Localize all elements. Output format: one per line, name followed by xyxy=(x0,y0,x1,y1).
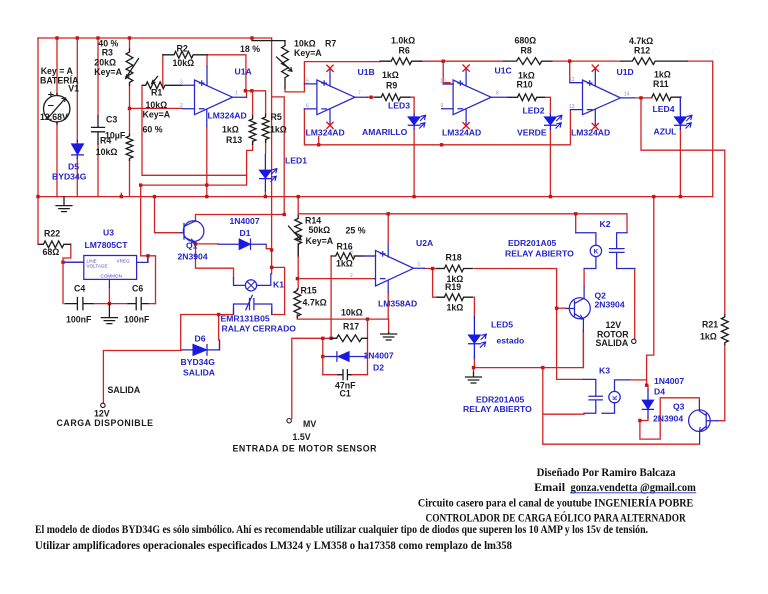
op-amp U1D xyxy=(583,80,621,115)
svg-text:R2: R2 xyxy=(177,44,188,54)
svg-text:18 %: 18 % xyxy=(240,44,260,54)
wire R10 to LED2 xyxy=(544,97,550,196)
svg-text:12: 12 xyxy=(569,77,575,83)
wire Q1 collector line xyxy=(196,215,285,222)
svg-text:SALIDA: SALIDA xyxy=(183,368,215,378)
wire R13 R5 bottoms xyxy=(253,140,266,154)
wire 5V node rail xyxy=(141,175,247,256)
svg-text:1kΩ: 1kΩ xyxy=(222,125,239,135)
wire D5 column xyxy=(76,38,78,197)
svg-text:1.5V: 1.5V xyxy=(293,432,311,442)
svg-text:LM324AD: LM324AD xyxy=(442,128,481,138)
svg-text:Key=A: Key=A xyxy=(294,48,322,58)
wire D2 C1 right rail xyxy=(365,319,368,375)
svg-text:U1B: U1B xyxy=(358,67,375,77)
wire EMR contact bottom rail xyxy=(181,309,285,341)
svg-text:Email: Email xyxy=(534,480,566,494)
svg-text:K2: K2 xyxy=(600,219,611,229)
svg-text:U1A: U1A xyxy=(235,67,252,77)
terminal ROTOR 12V xyxy=(632,339,636,343)
wire R14 top xyxy=(298,197,388,216)
LED3 xyxy=(408,117,420,125)
svg-text:LED3: LED3 xyxy=(388,101,410,111)
wire R18 to Q2 base xyxy=(474,269,583,380)
wire Q2 emitter drop xyxy=(582,330,584,368)
svg-text:R10: R10 xyxy=(517,80,533,90)
wire bus drop to K1 area xyxy=(271,38,273,274)
svg-text:Q1: Q1 xyxy=(186,241,198,251)
wire U2A vminus to ground xyxy=(387,293,389,320)
relay coil K1 xyxy=(245,280,256,291)
capacitor C4 xyxy=(65,298,93,310)
ground LED5 xyxy=(466,373,482,384)
wire U3 VREG to C6 right xyxy=(148,256,156,304)
relay coil K3 xyxy=(609,391,620,402)
wire U1A pin11 to ground xyxy=(206,127,208,197)
svg-text:10kΩ: 10kΩ xyxy=(146,100,168,110)
svg-text:EDR201A05: EDR201A05 xyxy=(476,395,524,405)
svg-text:Circuito casero para el canal: Circuito casero para el canal de youtube… xyxy=(418,495,694,509)
relay contact K3 xyxy=(583,379,602,413)
svg-text:D5: D5 xyxy=(68,162,79,172)
wire R8 right node column xyxy=(542,61,582,83)
svg-text:Utilizar amplificadores operac: Utilizar amplificadores operacionales es… xyxy=(35,538,512,552)
wire K2 feed line xyxy=(388,214,627,233)
svg-text:10kΩ: 10kΩ xyxy=(96,147,118,157)
svg-text:LM324AD: LM324AD xyxy=(571,128,610,138)
wire U1A feedback R2 xyxy=(163,55,246,91)
svg-text:R19: R19 xyxy=(445,282,461,292)
relay contact K2 xyxy=(610,233,635,269)
svg-text:V1: V1 xyxy=(68,84,79,94)
svg-text:13: 13 xyxy=(569,104,575,110)
svg-text:R6: R6 xyxy=(399,46,410,56)
svg-text:LED5: LED5 xyxy=(491,320,513,330)
transistor Q1 xyxy=(183,221,204,242)
wire U1B output node xyxy=(367,96,375,98)
capacitor C6 xyxy=(128,298,148,310)
svg-text:C4: C4 xyxy=(74,284,85,294)
svg-text:C1: C1 xyxy=(340,389,351,399)
potentiometer R7 xyxy=(282,41,289,88)
svg-text:U2A: U2A xyxy=(416,238,433,248)
LED1 xyxy=(260,170,272,178)
svg-text:AZUL: AZUL xyxy=(654,127,677,137)
capacitor C1 xyxy=(338,370,351,380)
wire R1 bottom feedback column xyxy=(142,85,253,175)
transistor Q3 xyxy=(689,410,711,432)
diode D5 xyxy=(72,144,84,154)
wire U2A output node xyxy=(424,269,444,298)
wire Q3 base from R21 xyxy=(718,420,725,422)
wire U1D output node xyxy=(634,98,725,150)
svg-text:MV: MV xyxy=(303,419,316,429)
wire R12 right drop xyxy=(688,61,713,197)
wire +12V top bus xyxy=(38,37,272,39)
wire K2 coil bottom to Q2 xyxy=(583,269,585,287)
svg-text:D6: D6 xyxy=(195,334,206,344)
no-connect X U1D pin11 xyxy=(592,123,598,129)
wire R16 to U2A plus xyxy=(354,255,376,257)
wire Q1 base from ground bus xyxy=(155,197,181,233)
svg-text:3: 3 xyxy=(350,250,353,256)
svg-text:U1D: U1D xyxy=(617,67,634,77)
wire Q3 emitter rail xyxy=(543,443,700,445)
svg-text:1kΩ: 1kΩ xyxy=(654,70,671,80)
svg-text:BYD34G: BYD34G xyxy=(52,172,87,182)
svg-text:14: 14 xyxy=(624,92,630,98)
resistor R18 xyxy=(437,265,473,272)
wire battery column xyxy=(56,38,58,197)
svg-text:2N3904: 2N3904 xyxy=(178,252,208,262)
svg-text:R17: R17 xyxy=(343,322,359,332)
svg-text:LED4: LED4 xyxy=(653,104,675,114)
svg-text:R21: R21 xyxy=(702,320,718,330)
svg-text:estado: estado xyxy=(497,336,525,346)
svg-text:1kΩ: 1kΩ xyxy=(700,332,717,342)
LED2 xyxy=(545,117,557,125)
svg-text:R13: R13 xyxy=(226,135,242,145)
resistor R22 xyxy=(39,241,70,248)
battery V1 xyxy=(44,96,70,122)
svg-text:RELAY ABIERTO: RELAY ABIERTO xyxy=(505,249,574,259)
wire U2A vplus pin xyxy=(387,214,389,243)
diode D6 xyxy=(193,345,206,356)
svg-text:6: 6 xyxy=(306,104,309,110)
wire K3 bottom loop xyxy=(543,368,584,445)
resistor R10 xyxy=(508,94,544,101)
svg-text:VOLTAGE: VOLTAGE xyxy=(87,264,108,269)
wire R15 bottom to ground line xyxy=(297,315,388,333)
svg-text:CARGA DISPONIBLE: CARGA DISPONIBLE xyxy=(57,418,154,428)
svg-text:ENTRADA DE MOTOR SENSOR: ENTRADA DE MOTOR SENSOR xyxy=(233,444,378,454)
svg-text:R5: R5 xyxy=(271,112,282,122)
svg-text:2: 2 xyxy=(350,273,353,279)
svg-text:VERDE: VERDE xyxy=(517,128,547,138)
svg-text:10kΩ: 10kΩ xyxy=(173,58,195,68)
resistor R12 xyxy=(621,58,687,65)
svg-text:U1C: U1C xyxy=(495,66,512,76)
svg-text:K: K xyxy=(594,248,599,255)
wire K3 coil top link xyxy=(629,379,647,381)
no-connect X U1D pin4 xyxy=(592,65,598,71)
resistor R17 xyxy=(331,335,367,342)
no-connect X U1B pin4 xyxy=(327,65,333,71)
resistor R15 xyxy=(294,289,301,318)
svg-text:60 %: 60 % xyxy=(143,125,163,135)
op-amp U1B xyxy=(317,80,355,115)
svg-text:R4: R4 xyxy=(100,135,111,145)
svg-text:12.68V: 12.68V xyxy=(40,112,68,122)
svg-text:LED1: LED1 xyxy=(285,156,307,166)
svg-text:R8: R8 xyxy=(521,46,532,56)
op-amp U2A xyxy=(376,251,414,287)
wire Q2 base stub xyxy=(557,307,566,309)
svg-text:R11: R11 xyxy=(653,79,669,89)
relay contact K1 EMR131B05 xyxy=(234,295,272,314)
resistor R9 xyxy=(375,94,410,101)
svg-text:AMARILLO: AMARILLO xyxy=(362,127,408,137)
wire LED4 cathode xyxy=(679,97,681,197)
potentiometer R14 xyxy=(295,216,302,256)
svg-text:Diseñado Por Ramiro Balcaza: Diseñado Por Ramiro Balcaza xyxy=(537,465,676,479)
svg-text:D4: D4 xyxy=(654,387,665,397)
diode D1 xyxy=(239,239,250,249)
terminal SALIDA 12V xyxy=(101,403,105,407)
node dot Q2 base xyxy=(555,307,558,310)
svg-text:COMMON: COMMON xyxy=(101,274,122,279)
svg-text:VREG: VREG xyxy=(117,259,130,264)
diode D4 xyxy=(642,400,653,409)
svg-text:1kΩ: 1kΩ xyxy=(270,125,287,135)
wire R9 to LED3 xyxy=(409,97,414,196)
svg-text:1.0kΩ: 1.0kΩ xyxy=(391,36,415,46)
ground battery xyxy=(56,197,72,212)
wire D4 bottom to Q3 collector staircase xyxy=(640,398,700,439)
wire R22 to U3 input xyxy=(63,244,84,303)
svg-text:4.7kΩ: 4.7kΩ xyxy=(303,298,327,308)
svg-text:12V: 12V xyxy=(94,409,110,419)
svg-text:4.7kΩ: 4.7kΩ xyxy=(629,36,653,46)
wire C4 C6 common node xyxy=(93,288,156,304)
resistor R19 xyxy=(437,294,473,301)
node dot R6 right xyxy=(442,60,445,63)
wire R17 left rail MV xyxy=(292,338,337,418)
svg-text:9: 9 xyxy=(441,103,444,109)
svg-text:Key=A: Key=A xyxy=(143,110,171,120)
LED5 xyxy=(469,335,481,343)
terminal MV xyxy=(287,419,291,423)
svg-text:RELAY ABIERTO: RELAY ABIERTO xyxy=(463,404,532,414)
potentiometer R3 xyxy=(126,49,133,85)
svg-text:Q3: Q3 xyxy=(673,402,685,412)
svg-text:R14: R14 xyxy=(305,216,321,226)
wire LED5 ground line xyxy=(474,332,584,373)
node dots Q1 D1 K1 xyxy=(194,242,197,245)
op-amp U1A xyxy=(195,80,233,115)
wire bus drop to K3 coil feed xyxy=(647,197,654,386)
svg-text:10kΩ: 10kΩ xyxy=(294,39,316,49)
diode D2 leads xyxy=(326,352,365,361)
ground U2A xyxy=(381,333,397,341)
diode D1 leads xyxy=(218,239,266,249)
capacitor C3 xyxy=(92,116,105,144)
svg-text:K3: K3 xyxy=(599,366,610,376)
svg-text:K1: K1 xyxy=(273,280,284,290)
resistor R4 xyxy=(126,134,133,160)
svg-text:D1: D1 xyxy=(240,228,251,238)
svg-text:1: 1 xyxy=(235,91,238,97)
node dot U1B output xyxy=(369,96,372,99)
svg-text:1N4007: 1N4007 xyxy=(364,351,394,361)
svg-text:BYD34G: BYD34G xyxy=(181,357,216,367)
wire R3 R4 column xyxy=(129,38,131,197)
wire LED1 cathode to ground bus xyxy=(264,191,266,197)
diode D2 xyxy=(338,352,349,361)
wire R14 R15 node to U2A minus xyxy=(297,244,374,290)
wire K2 contact bottom to rotor terminal xyxy=(634,269,636,340)
resistor R8 xyxy=(504,58,552,65)
wire R7 top lead connect xyxy=(252,38,285,41)
svg-text:50kΩ: 50kΩ xyxy=(309,225,331,235)
node dots K2 feed xyxy=(387,212,390,215)
svg-text:1N4007: 1N4007 xyxy=(654,376,684,386)
svg-text:R1: R1 xyxy=(151,87,162,97)
svg-text:El modelo de diodos BYD34G es: El modelo de diodos BYD34G es sólo simbó… xyxy=(35,522,648,536)
svg-text:2: 2 xyxy=(180,103,183,109)
svg-text:1: 1 xyxy=(418,262,421,268)
svg-text:R15: R15 xyxy=(301,286,317,296)
svg-text:8: 8 xyxy=(496,91,499,97)
svg-text:R18: R18 xyxy=(446,253,462,263)
svg-text:SALIDA: SALIDA xyxy=(596,338,629,348)
svg-text:1N4007: 1N4007 xyxy=(230,216,260,226)
svg-text:680Ω: 680Ω xyxy=(515,36,537,46)
resistor R6 xyxy=(380,58,422,65)
potentiometer R1 xyxy=(143,82,182,89)
svg-text:C3: C3 xyxy=(106,115,117,125)
svg-text:2N3904: 2N3904 xyxy=(595,300,625,310)
svg-text:12V: 12V xyxy=(606,320,622,330)
svg-text:LM324AD: LM324AD xyxy=(306,128,345,138)
svg-text:Key=A: Key=A xyxy=(306,236,334,246)
svg-text:U3: U3 xyxy=(103,228,114,238)
wire C1 bottom rail xyxy=(323,374,368,376)
wire R6 right node column xyxy=(421,61,504,84)
svg-text:100nF: 100nF xyxy=(66,315,92,325)
svg-text:R7: R7 xyxy=(325,39,336,49)
wire R7 wiper to U1B xyxy=(285,62,380,92)
svg-text:gonza.vendetta @gmail.com: gonza.vendetta @gmail.com xyxy=(571,480,696,494)
wire D4 anode stub xyxy=(647,385,648,390)
resistor R21 xyxy=(721,315,728,345)
wire R8 to R12 xyxy=(570,60,621,62)
resistor R13 xyxy=(249,116,256,144)
wire left rail to R22 xyxy=(37,38,39,244)
wire D1 cathode jog xyxy=(266,245,271,249)
wire ground bus xyxy=(38,193,713,196)
wire R7 branch xyxy=(272,97,285,215)
LED4 anode from R11 xyxy=(679,97,681,113)
svg-text:LM7805CT: LM7805CT xyxy=(85,240,129,250)
svg-text:LED2: LED2 xyxy=(523,106,545,116)
svg-text:R12: R12 xyxy=(634,46,650,56)
ground U3 xyxy=(101,304,117,324)
svg-text:1kΩ: 1kΩ xyxy=(382,70,399,80)
svg-text:R9: R9 xyxy=(386,80,397,90)
node dots U2A xyxy=(431,267,434,270)
resistor R16 xyxy=(331,253,363,260)
wire R19 to LED5 xyxy=(473,297,475,367)
no-connect X U1B pin11 xyxy=(327,122,333,128)
svg-text:2N3904: 2N3904 xyxy=(653,414,683,424)
svg-text:LM358AD: LM358AD xyxy=(378,299,417,309)
node dots U1A output xyxy=(244,89,247,92)
node dots ground bus xyxy=(36,195,39,198)
resistor R5 xyxy=(262,114,269,142)
svg-text:C6: C6 xyxy=(132,284,143,294)
svg-text:R22: R22 xyxy=(44,229,60,239)
node dot R4 inverting xyxy=(128,107,131,110)
node dots D4 xyxy=(645,384,648,387)
node dot U1D output xyxy=(639,96,642,99)
node dots top bus xyxy=(55,36,58,39)
wire R21 column xyxy=(724,150,726,421)
svg-text:1kΩ: 1kΩ xyxy=(336,259,353,269)
wire U1A output node xyxy=(245,91,266,116)
svg-text:Key=A: Key=A xyxy=(94,67,122,77)
wire C3 column xyxy=(97,38,99,197)
transistor Q2 xyxy=(569,298,590,319)
svg-text:100nF: 100nF xyxy=(124,315,150,325)
wire R16 left riser xyxy=(330,256,332,338)
svg-text:K: K xyxy=(612,395,619,400)
node dots U3 xyxy=(61,261,64,264)
wire Q1 emitter node to D1 and K1 xyxy=(196,244,234,278)
resistor R2 xyxy=(163,51,207,58)
resistor R11 xyxy=(652,94,681,101)
wire R4 node to U1A inverting input xyxy=(130,107,183,109)
node dots 5V rail xyxy=(139,183,142,186)
relay coil K2 xyxy=(590,245,601,256)
voltage regulator U3 xyxy=(84,256,137,280)
svg-text:1kΩ: 1kΩ xyxy=(447,303,464,313)
LED4 xyxy=(675,117,687,125)
wire U1B minus loop xyxy=(304,109,570,145)
wire D2 C1 left rail xyxy=(323,338,326,374)
svg-text:68Ω: 68Ω xyxy=(43,247,60,257)
svg-text:R3: R3 xyxy=(102,48,113,58)
svg-text:RALAY CERRADO: RALAY CERRADO xyxy=(222,324,297,334)
svg-text:25 %: 25 % xyxy=(346,226,366,236)
svg-text:LM324AD: LM324AD xyxy=(208,111,247,121)
op-amp U1C xyxy=(453,80,491,115)
svg-text:EMR131B05: EMR131B05 xyxy=(221,314,270,324)
svg-text:10: 10 xyxy=(440,79,446,85)
wire K1 coil right riser xyxy=(272,267,285,314)
svg-text:5: 5 xyxy=(306,79,309,85)
node dot R8 right xyxy=(568,59,571,62)
svg-text:7: 7 xyxy=(358,91,361,97)
no-connect X U1C pin4 xyxy=(463,65,469,71)
no-connect X U1C pin11 xyxy=(463,123,469,129)
svg-text:D2: D2 xyxy=(373,363,384,373)
wire D6 salida path xyxy=(103,315,219,404)
svg-text:3: 3 xyxy=(180,80,183,86)
svg-text:SALIDA: SALIDA xyxy=(108,385,141,395)
svg-text:EDR201A05: EDR201A05 xyxy=(508,238,556,248)
diode D6 leads xyxy=(182,341,220,356)
node dots LED5 ground line xyxy=(472,366,475,369)
svg-text:10kΩ: 10kΩ xyxy=(341,308,363,318)
